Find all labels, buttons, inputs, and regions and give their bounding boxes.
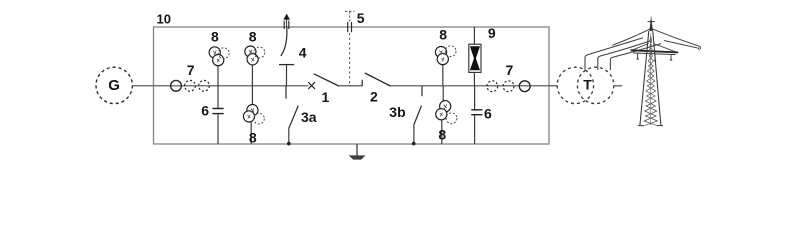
wire lower-left VT to enclosure bottom [250, 122, 252, 144]
bushing 7 left dashed circle 1 [185, 80, 196, 91]
wire bus to right capacitor [474, 86, 476, 110]
voltage transformer 8 first (upper) [209, 47, 229, 66]
earthing switch 3b fixed stem [421, 86, 423, 96]
pylon cross arm [631, 50, 679, 52]
wire lower-right VT to enclosure bottom [441, 120, 443, 144]
pylon lattice center line [649, 33, 652, 125]
overhead line drop 2 [598, 41, 651, 70]
wire surge arrester to bus [473, 72, 475, 85]
svg-text:2: 2 [370, 88, 378, 104]
earthing switch 3a fixed stem [285, 86, 287, 99]
svg-text:1: 1 [322, 89, 330, 105]
svg-text:8: 8 [438, 126, 446, 142]
earthing switch 3a blade [289, 106, 299, 129]
current transformer 5 dashed link up [349, 11, 351, 21]
capacitor 6 left plates [212, 108, 223, 110]
svg-text:8: 8 [249, 28, 257, 44]
svg-text:9: 9 [488, 25, 496, 41]
svg-text:3b: 3b [389, 104, 405, 120]
ground symbol [349, 155, 366, 159]
svg-text:8: 8 [249, 130, 257, 146]
surge arrester 9 body [469, 44, 481, 72]
bushing 7 left dashed circle 2 [199, 80, 210, 91]
pylon second wire right [664, 41, 699, 51]
bushing 7 right solid circle [519, 81, 530, 92]
capacitor 6 left: wire cap to enclosure bottom [217, 114, 219, 144]
capacitor 6 left: wire bus to cap [217, 86, 219, 109]
pylon arm struts [631, 44, 676, 53]
earthing switch 3b blade [414, 106, 422, 125]
transformer T winding 1 [557, 67, 593, 103]
circuit breaker 1 blade [314, 74, 339, 86]
wire 3b to enclosure bottom [413, 124, 415, 144]
wire upper-right VT to bus [442, 64, 444, 86]
surge arrester 9 bowtie [470, 46, 480, 58]
transformer T stub right [614, 85, 622, 87]
svg-text:T: T [583, 76, 592, 92]
svg-text:5: 5 [357, 10, 365, 26]
wire branch B upper (VT to bus) [251, 62, 253, 86]
pylon base [638, 125, 644, 127]
pylon peak spike [649, 15, 653, 31]
bushing set 7 left: solid circle [171, 80, 182, 91]
voltage transformer 8 lower right [436, 101, 457, 124]
junction dot 3b [412, 142, 416, 146]
wire enclosure top to surge arrester [473, 27, 475, 45]
disconnector 2 fixed contact tick [361, 80, 363, 86]
voltage transformer 8 second (upper) [245, 46, 265, 65]
arrow up [283, 14, 290, 20]
pylon shield wire left [612, 29, 650, 46]
svg-text:8: 8 [211, 28, 219, 44]
earthing pigtail below enclosure [356, 144, 358, 156]
svg-text:6: 6 [484, 105, 492, 121]
overhead line drop 3 [610, 44, 661, 70]
svg-text:7: 7 [187, 62, 195, 78]
enclosure 10 [154, 27, 550, 144]
pylon mast legs [640, 31, 649, 125]
svg-text:G: G [108, 77, 120, 94]
svg-text:10: 10 [157, 11, 171, 26]
svg-text:6: 6 [201, 103, 209, 119]
wire G to enclosure [132, 85, 153, 87]
wire bus to lower-left VT [251, 86, 253, 105]
wire contact bar to bus [286, 65, 288, 86]
current transformer 5 ticks [347, 22, 349, 32]
pylon lattice bracing [645, 36, 658, 125]
disconnector 4 top ticks [283, 21, 285, 29]
current transformer 5 dashed link down [349, 33, 351, 84]
generator G [96, 67, 132, 103]
disconnector 4 fixed contact bar [279, 64, 294, 66]
bushing set 7 right: dashed circle 1 [487, 81, 498, 92]
pylon insulator 1 [636, 53, 638, 59]
voltage transformer 8 lower left [243, 105, 264, 125]
svg-text:7: 7 [506, 62, 514, 78]
wire 3a to enclosure bottom [288, 128, 290, 144]
transformer T winding 2 [577, 67, 613, 103]
bushing 7 right dashed circle 2 [503, 81, 514, 92]
svg-text:4: 4 [299, 45, 307, 61]
wire bus to lower-right VT [442, 86, 444, 101]
current transformer 5 dashed cap [345, 10, 355, 12]
circuit breaker 1 contact x [308, 82, 315, 89]
wire right capacitor to enclosure bottom [474, 115, 476, 144]
junction dot 3a [287, 142, 291, 146]
voltage transformer 8 upper right [435, 46, 456, 65]
disconnector 2 blade [365, 73, 391, 86]
pylon insulator 3 [670, 55, 672, 60]
pylon insulator 2 [654, 55, 656, 61]
busbar middle segment [339, 85, 363, 87]
pylon shield wire right [652, 29, 701, 49]
svg-text:3a: 3a [301, 109, 317, 125]
capacitor 6 right plates [471, 109, 482, 111]
busbar left segment [154, 85, 309, 87]
wire enclosure to transformer [549, 85, 558, 87]
busbar right segment [390, 85, 549, 87]
disconnector 4 blade [281, 28, 287, 57]
svg-text:8: 8 [439, 27, 447, 43]
wire branch A upper (VT to bus) [217, 63, 219, 86]
overhead line drop 1 [585, 38, 643, 70]
